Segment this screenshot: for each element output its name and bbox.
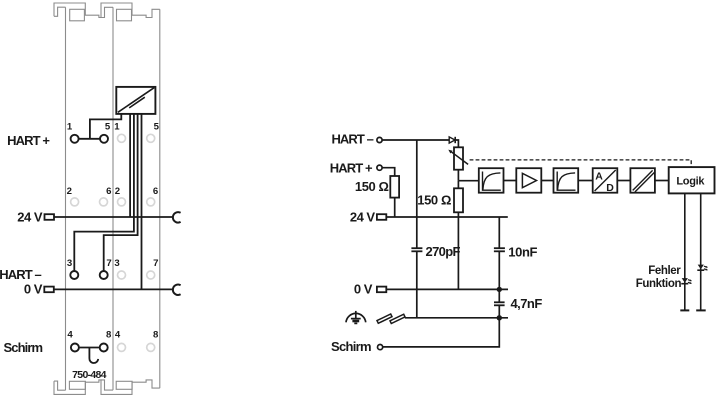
LED wire end bar right [696, 309, 706, 311]
contact circle 8 [100, 344, 108, 352]
svg-text:150 Ω: 150 Ω [417, 193, 451, 208]
wire link contacts 4-8 [79, 347, 100, 349]
trimmer arrow [451, 151, 469, 164]
diode D1 [449, 137, 455, 143]
svg-text:4: 4 [115, 329, 121, 340]
svg-text:6: 6 [106, 186, 111, 197]
svg-text:A: A [595, 171, 603, 183]
wire 0 V rail (left) [54, 288, 173, 290]
svg-text:HART +: HART + [7, 133, 50, 148]
terminal circle HART - [377, 137, 382, 142]
wire trimmer to node A [457, 170, 459, 181]
amplifier chain block 2 (amplifier triangle) [516, 168, 541, 193]
wire 24 V rail (left) [54, 216, 172, 218]
wire diode to trimmer [455, 140, 458, 147]
contact circle 7 [100, 271, 108, 279]
svg-text:10nF: 10nF [508, 244, 537, 259]
wire shield bus [405, 317, 508, 319]
wire Logik to Fehler LED [700, 193, 702, 310]
wire bundle b3: transformer to contact 7 [104, 114, 138, 271]
svg-text:HART –: HART – [0, 267, 41, 282]
galvanic isolation block [630, 168, 655, 193]
module latch stem bottom left [69, 381, 85, 389]
wire R2 to 0V rail [457, 212, 459, 289]
terminal box 24 V (left) [45, 214, 55, 220]
wire 0 V rail (schematic) [386, 288, 508, 290]
junction dot 0V / 4,7nF [497, 287, 502, 292]
A/D converter block [593, 168, 618, 193]
wire 24 V rail (schematic) [386, 216, 508, 218]
svg-text:0 V: 0 V [354, 281, 373, 296]
amplifier chain block 3 (filter curve) [554, 168, 579, 193]
module body right edge [159, 9, 161, 388]
svg-text:0 V: 0 V [24, 282, 43, 297]
wire R1 to 24V rail [394, 198, 396, 217]
svg-text:270pF: 270pF [426, 244, 461, 259]
svg-text:Funktion: Funktion [636, 278, 682, 290]
break symbol 24 V [173, 212, 181, 222]
svg-text:Logik: Logik [676, 176, 705, 188]
capacitor 10nF [494, 247, 505, 249]
svg-text:Schirm: Schirm [331, 339, 371, 354]
resistor R2 150 Ohm [454, 188, 463, 212]
break symbol 0 V [173, 285, 181, 295]
svg-text:2: 2 [67, 186, 72, 197]
module body divider [112, 7, 114, 390]
svg-text:8: 8 [153, 329, 159, 340]
dashed control line to Logik [470, 160, 692, 167]
svg-text:24 V: 24 V [350, 210, 376, 225]
transformer / system interface box U1 [116, 87, 155, 114]
svg-text:8: 8 [106, 329, 112, 340]
wire shield dot to Schirm terminal [383, 318, 500, 347]
unused contact circles (light) [71, 134, 155, 351]
svg-text:HART +: HART + [330, 160, 373, 175]
svg-text:1: 1 [114, 122, 120, 133]
wire block1 to block2 [504, 180, 517, 182]
svg-text:3: 3 [67, 258, 72, 269]
trimmer resistor RV1 [454, 147, 463, 169]
wire block4 to block5 [617, 180, 630, 182]
wire 4,7nF to shield dot [498, 305, 500, 317]
svg-text:Schirm: Schirm [4, 340, 43, 355]
svg-text:Fehler: Fehler [648, 265, 681, 277]
terminal box 0 V (schematic) [377, 287, 386, 293]
LED wire end bar left [680, 309, 689, 311]
terminal box 24 V (schematic) [377, 214, 386, 220]
svg-text:150 Ω: 150 Ω [355, 179, 389, 194]
Logik block U2 [669, 167, 715, 193]
junction dot shield bus [497, 315, 502, 320]
module body left edge [65, 7, 67, 390]
wire node A to resistor R2 [457, 181, 459, 189]
module bottom rail latch profile [54, 380, 160, 395]
svg-text:2: 2 [115, 186, 120, 197]
wire node A to amplifier chain [458, 180, 478, 182]
svg-text:D: D [606, 182, 614, 194]
wire transformer to contact 5 [90, 114, 121, 139]
wire block3 to block4 [578, 180, 593, 182]
svg-text:24 V: 24 V [17, 209, 43, 224]
module 750-484 top rail latch profile [54, 3, 160, 18]
wire bundle b1: transformer to 24V rail [129, 114, 131, 217]
svg-text:5: 5 [154, 122, 160, 133]
svg-text:5: 5 [105, 122, 111, 133]
svg-text:4: 4 [67, 329, 73, 340]
contact circle 5 [100, 135, 108, 143]
wire bundle b4: transformer to 0V rail [141, 114, 143, 290]
LED Funktion [681, 278, 692, 284]
svg-text:1: 1 [67, 122, 73, 133]
amplifier chain block 1 (limiter curve) [479, 168, 504, 193]
terminal circle HART + [377, 165, 382, 170]
shield clamp symbol [377, 314, 405, 324]
wire HART - [382, 139, 449, 141]
wire link contacts 1-5 [79, 138, 100, 140]
transformer diagonal [118, 88, 154, 113]
contact circle 1 [71, 135, 79, 143]
resistor R1 150 Ohm [390, 176, 399, 198]
functional earth symbol [346, 311, 366, 324]
wire 24V rail to capacitor 10nF [498, 217, 500, 248]
contact circle 3 [70, 271, 78, 279]
transformer second diagonal stroke [129, 97, 145, 108]
contact circle 4 [71, 344, 79, 352]
module latch stem top right [117, 9, 132, 20]
wire HART- node to capacitor 270pF [416, 140, 418, 248]
terminal circle Schirm [378, 345, 383, 350]
wire block5 to Logik [655, 180, 669, 182]
svg-text:HART –: HART – [331, 131, 373, 146]
svg-text:4,7nF: 4,7nF [511, 296, 543, 311]
wire 0V dot to 4,7nF [498, 289, 500, 302]
svg-text:7: 7 [106, 258, 111, 269]
wire 270pF to shield bus [416, 251, 418, 317]
capacitor 270pF [411, 247, 422, 249]
wire HART + to resistor R1 [382, 168, 395, 176]
wire 10nF to 0V rail [498, 251, 500, 289]
svg-text:3: 3 [114, 258, 119, 269]
capacitor 4,7nF [494, 301, 505, 303]
svg-text:6: 6 [153, 186, 158, 197]
wire block2 to block3 [541, 180, 553, 182]
svg-text:7: 7 [153, 258, 158, 269]
svg-text:750-484: 750-484 [72, 369, 106, 381]
terminal box 0 V (left) [44, 287, 54, 293]
LED Fehler [697, 265, 708, 271]
module latch stem top left [70, 9, 85, 20]
wire bundle b2: transformer to contact 3 [74, 114, 134, 271]
wire Logik to Funktion LED [684, 193, 686, 310]
module latch stem bottom right [116, 381, 132, 389]
shield hook symbol [89, 348, 98, 364]
